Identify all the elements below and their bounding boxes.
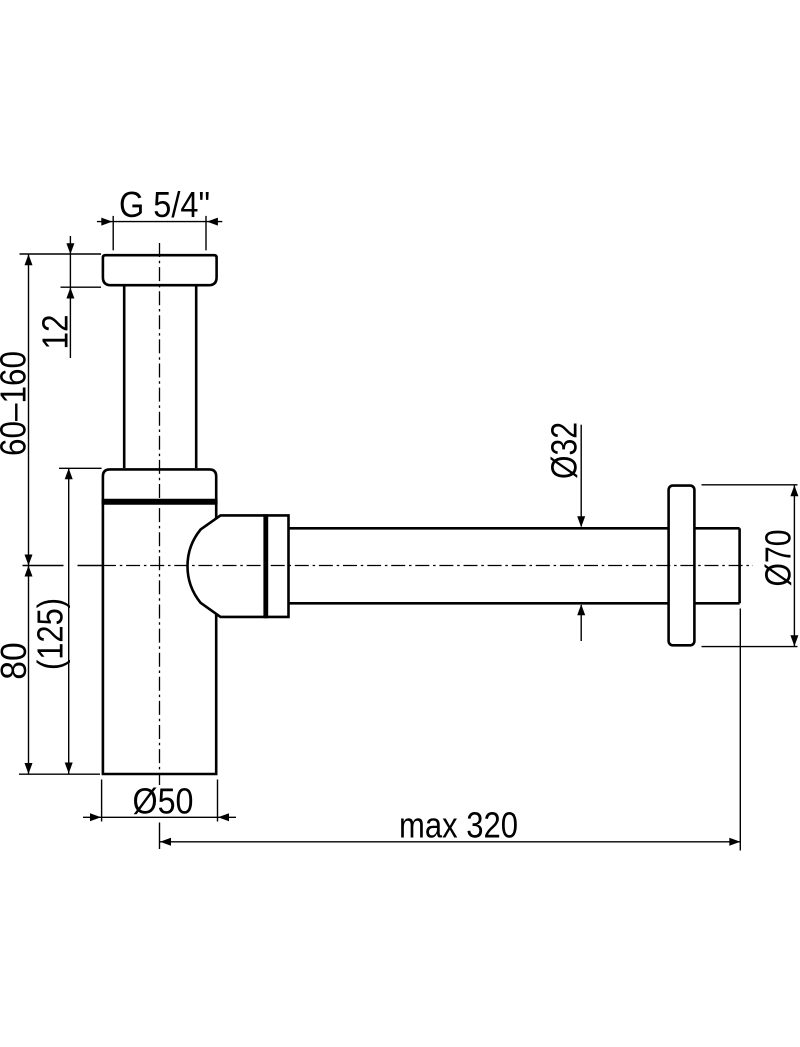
svg-text:G 5/4": G 5/4" (119, 184, 210, 225)
svg-text:Ø32: Ø32 (543, 422, 584, 479)
svg-text:80: 80 (0, 642, 34, 680)
svg-text:Ø70: Ø70 (758, 530, 799, 587)
svg-text:12: 12 (35, 315, 76, 350)
svg-text:Ø50: Ø50 (133, 781, 194, 822)
svg-text:60–160: 60–160 (0, 351, 34, 456)
svg-text:max 320: max 320 (399, 805, 518, 846)
svg-text:(125): (125) (30, 598, 71, 670)
